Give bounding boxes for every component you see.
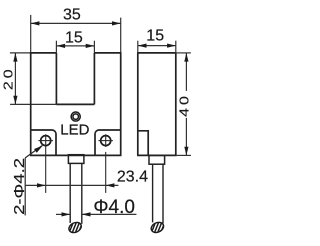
wire: 35 dim left extension line — [30, 15, 32, 53]
wire: 40 bottom extension line — [177, 154, 191, 156]
wire: 2-phi4.2 leader diagonal — [25, 146, 42, 158]
node: 35 left arrow — [31, 21, 40, 25]
wire: 15 side dim left extension — [137, 41, 139, 53]
wire: side body bottom edge — [137, 154, 177, 156]
wire: side body left edge — [137, 53, 139, 155]
wire: phi4.0 leader right segment / underline — [82, 213, 137, 215]
node: side view ear step — [138, 131, 148, 156]
wire: front body bottom edge — [30, 154, 122, 156]
wire: right hole horizontal crosshair — [98, 140, 113, 142]
node: 23.4 right arrow (outside, points left) — [106, 183, 115, 187]
wire: 20 top extension line — [10, 52, 31, 54]
wire: right hole extension to 23.4 dim — [105, 152, 107, 193]
wire: front body top right segment — [94, 52, 121, 54]
wire: 35 dimension line — [31, 22, 121, 24]
node: phi4.0 right arrow (points left at cable) — [82, 212, 91, 216]
wire: 40 dimension line upper segment — [185, 53, 187, 91]
node: 15 right arrow front — [86, 44, 95, 48]
hole left 4.2 circle — [41, 136, 51, 146]
LED indicator ring — [71, 112, 80, 121]
wire: 15 dimension line front view — [56, 45, 94, 47]
node: 15 side left arrow — [138, 44, 147, 48]
svg-text:Φ4.0: Φ4.0 — [93, 197, 135, 218]
wire: side body right edge — [175, 53, 177, 155]
wire: right hole vertical crosshair — [105, 134, 107, 147]
svg-text:20: 20 — [2, 66, 16, 90]
wire: left hole horizontal crosshair — [38, 140, 53, 142]
wire: front body right edge — [120, 53, 122, 155]
cable gland side view — [149, 155, 165, 164]
node: 40 bottom arrow — [184, 147, 188, 156]
wire: front body top left segment — [30, 52, 57, 54]
wire: side cable left side — [152, 164, 154, 222]
wire: 15 side dim right extension — [175, 41, 177, 53]
node: 15 side right arrow — [167, 44, 176, 48]
node: 2-phi4.2 leader arrowhead — [34, 146, 43, 153]
wire: slot left wall — [55, 53, 57, 105]
node: right mounting ear outline — [95, 130, 121, 155]
wire: side body top edge — [137, 52, 177, 54]
wire: 20 bottom extension line — [10, 103, 56, 105]
wire: 2-phi4.2 underline — [24, 158, 26, 216]
wire: 20 dimension line — [14, 53, 16, 105]
wire: 15 side dimension line — [138, 45, 176, 47]
node: 23.4 left arrow (outside, points right) — [37, 183, 46, 187]
wire: 35 dim right extension line — [120, 18, 122, 53]
wire: front body left edge — [30, 53, 32, 155]
svg-text:15: 15 — [65, 29, 83, 46]
node: side cable end (hatched ellipse) — [149, 220, 167, 239]
node: 15 left arrow front — [56, 44, 65, 48]
wire: slot bottom — [56, 103, 94, 105]
cable gland front view — [68, 155, 84, 164]
node: phi4.0 left arrow (points right at cable) — [62, 212, 71, 216]
hole right 4.2 circle — [101, 136, 111, 146]
wire: left hole vertical crosshair and extension — [45, 134, 47, 193]
wire: 15 left extension above slot — [55, 41, 57, 53]
wire: side cable right side — [162, 164, 164, 223]
svg-text:35: 35 — [63, 6, 81, 23]
node: 40 top arrow — [184, 53, 188, 62]
side view body rectangle — [137, 53, 177, 155]
wire: phi4.0 leader left segment — [56, 213, 70, 215]
wire: front cable right side — [81, 163, 83, 224]
wire: 15 right extension above slot — [93, 41, 95, 53]
node: front cable end (hatched ellipse) — [67, 220, 85, 239]
wire: 40 top extension line — [177, 52, 191, 54]
body: front view outline — [30, 53, 122, 155]
wire: 23.4 dimension line — [25, 184, 118, 186]
node: 35 right arrow — [112, 21, 121, 25]
svg-text:LED: LED — [60, 122, 89, 139]
wire: 40 dimension line lower segment — [185, 118, 187, 155]
svg-text:40: 40 — [178, 93, 192, 117]
node: left mounting ear outline — [31, 130, 56, 155]
node: 20 top arrow — [13, 53, 17, 62]
wire: slot right wall — [93, 53, 95, 105]
svg-text:15: 15 — [146, 27, 164, 44]
svg-text:23.4: 23.4 — [117, 168, 148, 185]
node: 20 bottom arrow — [13, 96, 17, 105]
wire: front cable left side — [69, 163, 71, 223]
